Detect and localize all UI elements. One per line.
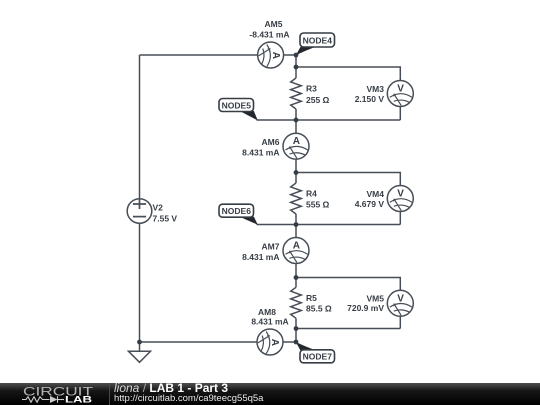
voltmeter VM5 xyxy=(387,290,413,316)
wire AM6 bottom stub xyxy=(295,159,297,172)
svg-text:2.150 V: 2.150 V xyxy=(355,94,385,104)
wire branch2 top to VM4 xyxy=(296,173,400,186)
svg-text:NODE7: NODE7 xyxy=(303,352,333,362)
svg-text:4.679 V: 4.679 V xyxy=(355,199,385,209)
svg-text:R5: R5 xyxy=(306,293,317,303)
svg-text:NODE4: NODE4 xyxy=(303,35,333,45)
wire stage3 bottom xyxy=(296,328,400,330)
svg-text:8.431 mA: 8.431 mA xyxy=(242,252,279,262)
node NODE6 flag xyxy=(219,204,258,225)
ammeter AM6 xyxy=(283,133,309,159)
wire left rail lower xyxy=(139,223,141,342)
wire AM8 to NODE7 xyxy=(283,341,296,343)
voltmeter VM3 xyxy=(387,81,413,107)
junction dots xyxy=(137,53,298,345)
resistor R3 zigzag xyxy=(291,78,302,109)
wire VM4 bottom to stage2 bottom xyxy=(399,212,401,225)
footer logo resistor-diode icon xyxy=(22,396,64,403)
voltmeter VM4 xyxy=(387,186,413,212)
wire rail NODE4 down to branch1 xyxy=(295,55,297,67)
wire R3 top stub xyxy=(295,67,297,78)
wire branch3 top to VM5 xyxy=(296,278,400,291)
svg-text:NODE6: NODE6 xyxy=(222,206,252,216)
node NODE7 flag xyxy=(296,342,335,363)
wire R5 bottom stub xyxy=(295,318,297,328)
svg-text:AM5: AM5 xyxy=(265,19,283,29)
svg-text:8.431 mA: 8.431 mA xyxy=(251,316,288,326)
svg-text:R3: R3 xyxy=(306,84,317,94)
wire R4 bottom stub xyxy=(295,214,297,225)
wire left rail upper xyxy=(139,55,141,199)
svg-text:NODE5: NODE5 xyxy=(222,100,252,110)
svg-text:V2: V2 xyxy=(153,203,164,213)
svg-text:-8.431 mA: -8.431 mA xyxy=(249,30,289,40)
wire stage2 bottom NODE6 xyxy=(257,224,401,226)
resistor R5 zigzag xyxy=(291,287,302,318)
ammeter AM8 xyxy=(257,329,283,355)
wire branch1 top to VM3 xyxy=(296,67,400,81)
svg-text:LAB: LAB xyxy=(65,395,93,405)
node dot branch2 top xyxy=(294,170,299,175)
ammeter AM5 xyxy=(258,42,284,68)
svg-text:AM7: AM7 xyxy=(262,241,280,251)
svg-text:A: A xyxy=(293,136,300,147)
wire AM7 bottom stub xyxy=(295,264,297,278)
resistor R3 labels xyxy=(306,84,330,105)
resistor R4 labels xyxy=(306,189,330,210)
node dot NODE5 junction xyxy=(294,118,299,123)
svg-text:V: V xyxy=(397,189,404,200)
wire R3 bottom stub xyxy=(295,109,297,120)
svg-text:R4: R4 xyxy=(306,189,317,199)
svg-text:A: A xyxy=(293,240,300,251)
resistor R4 zigzag xyxy=(291,183,302,214)
wire bottom from ground to AM8 xyxy=(140,341,258,343)
ground symbol xyxy=(129,351,151,362)
svg-text:720.9 mV: 720.9 mV xyxy=(347,303,384,313)
svg-text:AM6: AM6 xyxy=(262,137,280,147)
svg-text:VM3: VM3 xyxy=(367,84,385,94)
wire R4 top stub xyxy=(295,173,297,184)
footer separator xyxy=(109,383,111,405)
svg-text:V: V xyxy=(397,293,404,304)
ammeter AM7 xyxy=(283,238,309,264)
node NODE4 flag xyxy=(296,33,335,56)
resistor R5 labels xyxy=(306,293,332,314)
svg-text:A: A xyxy=(270,52,281,59)
node dot stage3 bottom xyxy=(294,326,299,331)
wire AM7 top stub xyxy=(295,225,297,238)
svg-text:7.55 V: 7.55 V xyxy=(153,213,178,223)
svg-text:A: A xyxy=(269,339,280,346)
voltage source V2 xyxy=(127,199,152,224)
node dot NODE6 junction xyxy=(294,222,299,227)
node dot NODE7 junction xyxy=(294,340,299,345)
svg-text:http://circuitlab.com/ca9teecg: http://circuitlab.com/ca9teecg55q5a xyxy=(114,393,264,404)
wire VM5 bottom to stage3 bottom xyxy=(399,316,401,328)
svg-text:VM5: VM5 xyxy=(367,294,385,304)
svg-text:555 Ω: 555 Ω xyxy=(306,199,330,209)
wire VM3 bottom to stage1 bottom xyxy=(399,107,401,121)
node dot branch3 top xyxy=(294,275,299,280)
wire ground stub xyxy=(139,342,141,351)
wire R5 top stub xyxy=(295,278,297,288)
node dot NODE4 junction xyxy=(294,53,299,58)
wire AM5 to NODE4 xyxy=(284,54,296,56)
node NODE5 flag xyxy=(219,99,258,121)
wire stage1 bottom NODE5 xyxy=(257,119,401,121)
wire top from V2 rail to AM5 xyxy=(140,54,258,56)
wire AM6 top stub xyxy=(295,120,297,133)
node dot branch1 top xyxy=(294,65,299,70)
wire rail to AM8 node xyxy=(295,329,297,343)
svg-text:V: V xyxy=(397,84,404,95)
svg-text:85.5 Ω: 85.5 Ω xyxy=(306,304,332,314)
svg-text:8.431 mA: 8.431 mA xyxy=(242,148,279,158)
svg-text:VM4: VM4 xyxy=(367,189,385,199)
svg-text:255 Ω: 255 Ω xyxy=(306,95,330,105)
footer bar xyxy=(0,383,540,405)
node dot ground junction xyxy=(137,340,142,345)
